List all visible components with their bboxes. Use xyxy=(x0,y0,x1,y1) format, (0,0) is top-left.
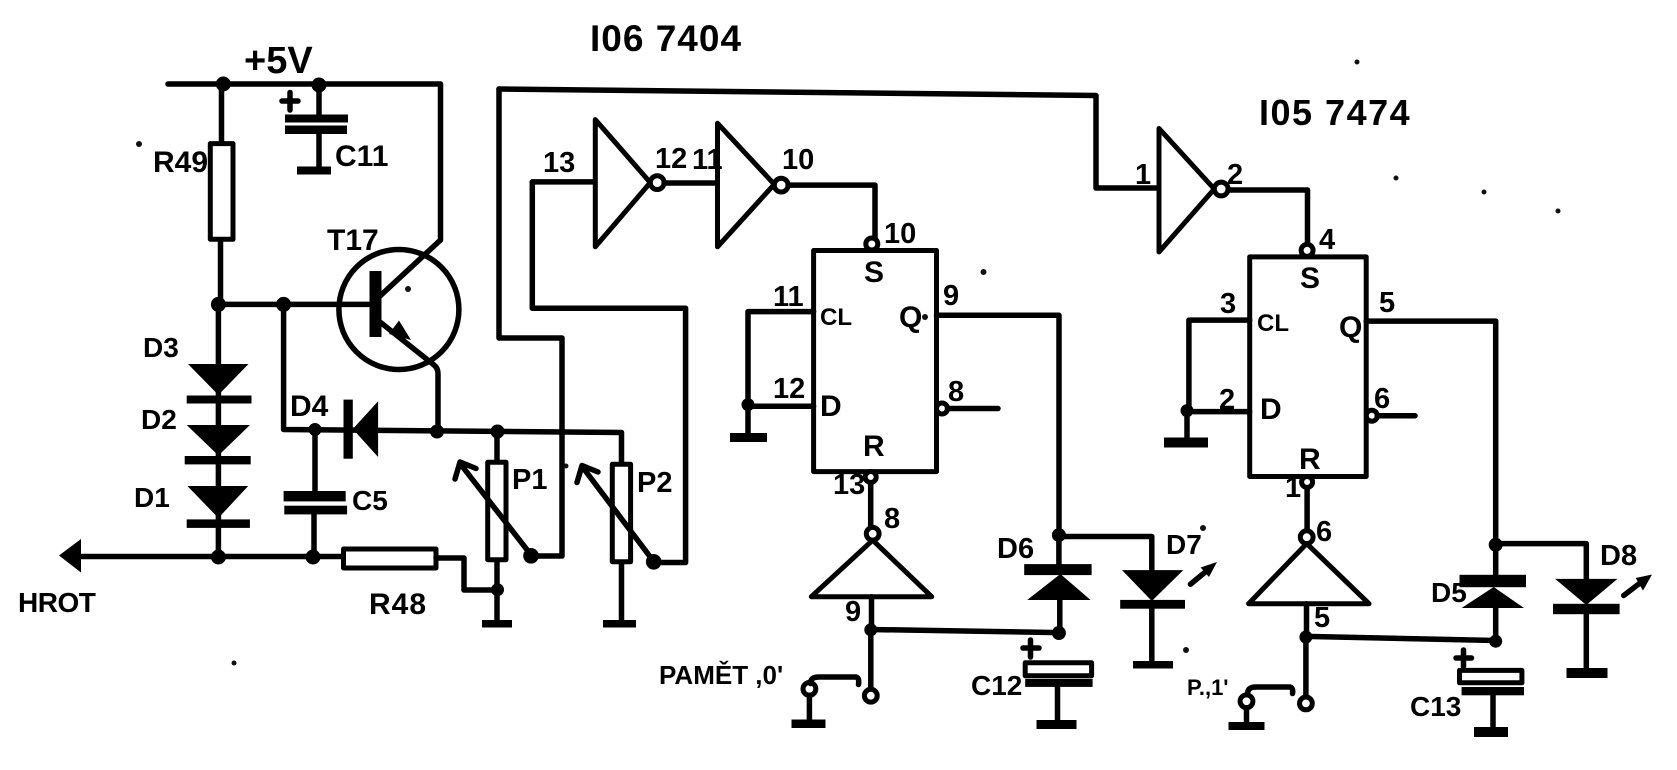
svg-text:R: R xyxy=(1299,443,1321,476)
svg-text:8: 8 xyxy=(948,376,964,408)
svg-text:R49: R49 xyxy=(153,146,208,179)
svg-text:HROT: HROT xyxy=(18,587,96,618)
svg-text:11: 11 xyxy=(692,144,723,176)
svg-text:Q: Q xyxy=(899,301,922,334)
svg-text:13: 13 xyxy=(833,469,865,501)
svg-text:S: S xyxy=(864,256,884,289)
svg-text:D1: D1 xyxy=(134,482,170,513)
svg-text:S: S xyxy=(1300,262,1320,295)
svg-text:2: 2 xyxy=(1219,384,1235,416)
svg-text:11: 11 xyxy=(773,281,804,313)
svg-text:D: D xyxy=(1260,393,1282,426)
svg-text:13: 13 xyxy=(543,147,575,179)
svg-text:4: 4 xyxy=(1319,224,1335,256)
svg-text:1: 1 xyxy=(1135,159,1151,191)
svg-text:8: 8 xyxy=(884,503,900,535)
svg-text:T17: T17 xyxy=(327,224,379,257)
svg-text:9: 9 xyxy=(845,596,861,628)
svg-text:+5V: +5V xyxy=(244,40,313,82)
svg-text:D7: D7 xyxy=(1166,529,1202,560)
svg-text:P1: P1 xyxy=(512,464,547,496)
svg-text:C12: C12 xyxy=(971,670,1022,701)
svg-text:5: 5 xyxy=(1379,287,1395,319)
svg-text:P.,1': P.,1' xyxy=(1187,675,1229,700)
svg-text:6: 6 xyxy=(1316,516,1332,548)
svg-text:2: 2 xyxy=(1227,159,1243,191)
svg-text:12: 12 xyxy=(655,143,687,175)
svg-text:R48: R48 xyxy=(369,588,427,621)
svg-text:D5: D5 xyxy=(1431,577,1467,608)
svg-text:C13: C13 xyxy=(1410,691,1461,722)
svg-text:5: 5 xyxy=(1314,602,1330,634)
svg-text:D: D xyxy=(820,390,842,423)
svg-text:D3: D3 xyxy=(143,332,179,363)
svg-text:I05 7474: I05 7474 xyxy=(1259,92,1411,133)
svg-text:D6: D6 xyxy=(997,533,1034,565)
svg-text:R: R xyxy=(863,430,885,463)
svg-text:10: 10 xyxy=(782,144,814,176)
svg-text:I06 7404: I06 7404 xyxy=(590,18,742,59)
svg-text:P2: P2 xyxy=(637,467,672,499)
svg-text:CL: CL xyxy=(820,304,852,331)
svg-text:C11: C11 xyxy=(335,140,388,173)
svg-text:9: 9 xyxy=(943,280,959,312)
svg-text:12: 12 xyxy=(773,373,805,405)
svg-text:10: 10 xyxy=(884,218,916,250)
svg-text:D8: D8 xyxy=(1600,540,1637,572)
svg-text:CL: CL xyxy=(1257,310,1289,337)
svg-text:D2: D2 xyxy=(141,404,177,435)
svg-text:1: 1 xyxy=(1285,472,1301,504)
svg-text:3: 3 xyxy=(1220,288,1236,320)
svg-text:C5: C5 xyxy=(352,485,388,516)
svg-text:PAMĚT ,0': PAMĚT ,0' xyxy=(659,660,783,690)
svg-text:6: 6 xyxy=(1374,383,1390,415)
svg-text:D4: D4 xyxy=(290,390,329,423)
svg-text:Q: Q xyxy=(1339,311,1362,344)
